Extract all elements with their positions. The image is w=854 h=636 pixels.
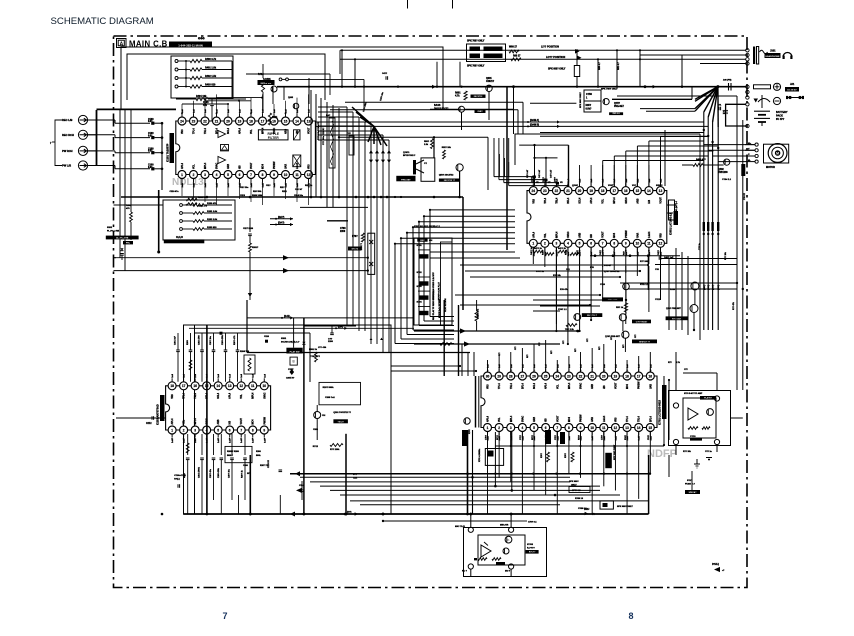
- caps-above-IC601 nested box: [519, 144, 568, 146]
- svg-text:23: 23: [543, 189, 547, 193]
- svg-text:3: 3: [556, 242, 558, 246]
- svg-text:A60 (PR): A60 (PR): [723, 79, 732, 82]
- svg-text:6: 6: [545, 426, 547, 430]
- capacitor C709 stub: [331, 326, 333, 333]
- svg-text:M-: M-: [748, 160, 751, 162]
- svg-text:C??0: C??0: [690, 436, 696, 438]
- wire IC601 to motor bus: [648, 141, 650, 187]
- wire IC101 pin riser: [273, 104, 275, 114]
- wire IC601 to motor bus: [660, 137, 662, 187]
- B pack transistor K1: [505, 536, 512, 543]
- wire IC701 area risers thick: [467, 430, 469, 514]
- wire fan diagonal: [695, 87, 718, 109]
- svg-text:16: 16: [649, 374, 653, 378]
- thick feeder x507: [506, 87, 508, 250]
- svg-text:APL4: APL4: [545, 382, 548, 389]
- wire base cluster: [430, 108, 459, 110]
- svg-text:R20? 4.7k: R20? 4.7k: [233, 335, 236, 345]
- svg-text:VR3: VR3: [615, 417, 617, 422]
- wire conduit lower corner: [430, 316, 454, 318]
- svg-text:Q50? 2SC2712: Q50? 2SC2712: [439, 175, 454, 177]
- wire IC701 pin rise: [580, 352, 582, 373]
- svg-text:10: 10: [636, 242, 640, 246]
- svg-text:Q?0?1: Q?0?1: [403, 152, 410, 154]
- wire corner run: [413, 226, 515, 228]
- capacitor C408: [658, 256, 660, 260]
- battery cell symbol: [761, 95, 763, 108]
- svg-text:SCL4: SCL4: [533, 382, 536, 389]
- svg-text:A: A: [120, 41, 124, 47]
- svg-text:SVARC: SVARC: [656, 184, 663, 187]
- svg-text:30: 30: [486, 374, 490, 378]
- resistor R400 motor: [693, 164, 703, 167]
- B pack bottom terminals: [468, 527, 473, 532]
- preset block C656: [584, 90, 601, 101]
- inner line playback box left: [194, 325, 196, 514]
- svg-text:J101: J101: [770, 50, 776, 53]
- svg-text:JA1: JA1: [790, 83, 795, 86]
- section box around IC201 playback amp: [184, 325, 392, 514]
- svg-text:S?C?2: S?C?2: [351, 249, 358, 251]
- svg-text:C20? 47u: C20? 47u: [209, 468, 212, 478]
- wire IC101 pin riser: [262, 94, 264, 113]
- wire cap to IC101 bus: [154, 122, 162, 124]
- wire long drop: [567, 248, 569, 344]
- svg-text:VCL: VCL: [499, 417, 501, 422]
- svg-text:PRE-SET: PRE-SET: [401, 179, 411, 181]
- svg-text:R5? 1k: R5? 1k: [616, 307, 624, 309]
- wire switch feed: [363, 79, 365, 110]
- wire IC601 pin drop: [613, 248, 615, 270]
- svg-text:SP?? 10: SP?? 10: [572, 490, 581, 492]
- svg-text:C117 2200: C117 2200: [243, 228, 254, 230]
- svg-text:R?? 6167: R?? 6167: [672, 318, 682, 320]
- svg-text:R4?? 1k: R4?? 1k: [558, 247, 567, 250]
- svg-text:C11? 47: C11? 47: [295, 188, 302, 191]
- svg-text:R60 4.7: R60 4.7: [598, 62, 601, 70]
- svg-text:17: 17: [637, 374, 641, 378]
- capacitor group C201 3uF: [177, 333, 179, 350]
- capacitor C20? 10u: [213, 333, 215, 350]
- svg-text:MA? ?L/O: MA? ?L/O: [455, 525, 465, 528]
- C75 black label vertical: [741, 164, 745, 176]
- wire IC601 pin drop: [567, 248, 569, 273]
- svg-text:22: 22: [579, 374, 583, 378]
- resistor R403 ladder row: [175, 85, 178, 88]
- capacitor R20? 4.7k: [237, 333, 239, 350]
- resistor R704: [571, 452, 574, 462]
- wire IC701 pin rise: [614, 340, 616, 373]
- bias resistor row R150: [180, 204, 183, 207]
- IC101 internal attenuator box: [221, 145, 229, 151]
- resistor R800 47k vertical: [475, 311, 478, 321]
- junction dots upper bundle at bus197: [394, 196, 396, 198]
- svg-text:6: 6: [590, 242, 592, 246]
- wire cap to IC101 bus: [154, 137, 162, 139]
- component SC601 right of IC601: [669, 200, 675, 220]
- svg-text:FILTER: FILTER: [268, 136, 280, 140]
- wire bottom bus: [350, 500, 649, 502]
- svg-text:3: 3: [194, 428, 196, 432]
- svg-text:3: 3: [204, 173, 206, 177]
- wire stub arrows bottom: [296, 488, 302, 493]
- left border small stubs: [114, 204, 122, 206]
- motor M701 circles: [768, 144, 787, 163]
- wire mid horizontal: [470, 276, 620, 278]
- svg-text:15: 15: [284, 119, 288, 123]
- transistor Q401: [271, 86, 277, 92]
- resistor R401 ladder row: [175, 68, 178, 71]
- DC jack circle plus: [773, 83, 780, 90]
- wire IC701 pin rise: [510, 352, 512, 373]
- svg-text:2SC2712: 2SC2712: [265, 82, 275, 84]
- wire bottom bus: [360, 504, 560, 506]
- wire IC701 pin rise: [521, 348, 523, 373]
- svg-text:C42?: C42?: [657, 249, 660, 255]
- svg-text:3: 3: [510, 426, 512, 430]
- svg-text:R50?: R50?: [424, 141, 430, 143]
- svg-text:C204 4700k: C204 4700k: [198, 466, 201, 478]
- svg-text:C72?: C72?: [555, 434, 557, 440]
- connector group wiring to board: [96, 120, 98, 166]
- fan node on power bus: [716, 85, 719, 88]
- svg-text:R71?: R71?: [497, 434, 499, 440]
- svg-text:5: 5: [579, 242, 581, 246]
- right vertical pair to B pack: [736, 96, 738, 390]
- net pair on IC201 box bottom: [344, 513, 347, 516]
- wire IC701 pin rise: [591, 348, 593, 373]
- wire IC701 pin rise: [638, 356, 640, 373]
- svg-text:VOUT: VOUT: [603, 231, 605, 238]
- svg-text:2SC2?12 ?: 2SC2?12 ?: [587, 315, 598, 317]
- wire switch drop 1: [597, 59, 599, 86]
- section box around IC101 front-end: [121, 47, 443, 110]
- junction wire under IC601: [590, 255, 680, 257]
- wire drop: [602, 266, 604, 300]
- svg-text:Q401: Q401: [265, 78, 271, 81]
- switch S702: [423, 279, 425, 289]
- svg-text:R404 10k: R404 10k: [196, 95, 207, 98]
- resistor R203 zig: [189, 360, 192, 370]
- capacitor group C203 470k: [225, 333, 227, 350]
- svg-text:C?5 R?: C?5 R?: [744, 192, 746, 200]
- svg-text:20: 20: [578, 189, 582, 193]
- svg-text:15: 15: [636, 189, 640, 193]
- svg-text:R65 6.8: R65 6.8: [613, 113, 621, 115]
- svg-text:21: 21: [590, 374, 594, 378]
- svg-text:R?C??: R?C??: [529, 552, 536, 554]
- svg-text:SPK 600? ONLY: SPK 600? ONLY: [617, 506, 633, 508]
- svg-text:9: 9: [625, 242, 627, 246]
- svg-text:R72?: R72?: [532, 434, 534, 440]
- svg-text:Q?5?: Q?5?: [614, 103, 620, 105]
- wire vertical bus: [388, 140, 390, 352]
- wire long drop: [555, 248, 557, 331]
- wire drop: [555, 266, 557, 324]
- motor M701 body: [764, 144, 789, 163]
- wire IC101 pin drop: [308, 182, 310, 205]
- wire stub: [556, 432, 558, 446]
- svg-text:UAR: UAR: [591, 417, 594, 422]
- junction dots bus y514: [206, 513, 209, 516]
- black box under IC701 pin6: [545, 430, 551, 444]
- bottom thick bus: [183, 513, 648, 515]
- svg-text:4: 4: [216, 173, 218, 177]
- wire IC101 pin drop: [262, 182, 264, 205]
- svg-text:11: 11: [602, 426, 606, 430]
- vertical drop on switch line x640: [639, 50, 641, 86]
- wire stub: [626, 432, 628, 446]
- wire IC701 pin rise: [545, 340, 547, 373]
- svg-text:R111: R111: [282, 191, 288, 193]
- wire motor bus vertical: [707, 117, 709, 330]
- svg-text:11: 11: [647, 242, 651, 246]
- svg-text:C?? 100u C118 R?: C?? 100u C118 R?: [323, 127, 325, 145]
- svg-text:C40?: C40?: [542, 176, 545, 182]
- wire to bottom rail: [238, 495, 240, 514]
- wire vertical: [326, 102, 328, 207]
- svg-text:SC?01 (MT?)-?: SC?01 (MT?)-?: [676, 200, 678, 215]
- wire switch drop 2: [616, 50, 618, 86]
- svg-text:9: 9: [580, 426, 582, 430]
- switch column inner box: [441, 242, 453, 325]
- right B pack op amp: [688, 408, 698, 420]
- svg-text:PRE-SET: PRE-SET: [614, 106, 625, 108]
- svg-text:UAR: UAR: [285, 164, 288, 169]
- svg-text:MODE 5x14 SPEED 2.2k W?F: MODE 5x14 SPEED 2.2k W?F: [432, 272, 435, 300]
- wire vertical bus: [364, 122, 366, 331]
- wire IC101 pin riser: [296, 98, 298, 114]
- rec switch black box: [417, 238, 427, 242]
- svg-text:18: 18: [170, 384, 174, 388]
- svg-text:10: 10: [284, 173, 288, 177]
- svg-text:ARB: ARB: [636, 198, 639, 203]
- svg-text:11: 11: [295, 173, 299, 177]
- svg-text:13: 13: [625, 426, 629, 430]
- svg-text:R?9 47k: R?9 47k: [560, 288, 569, 291]
- wire conduit vertical: [429, 210, 431, 317]
- wire bottom bus: [340, 494, 620, 496]
- svg-text:2200: 2200: [328, 341, 334, 343]
- junctions on bottom buses: [466, 472, 469, 475]
- svg-text:Q201 ?SC2712 ??: Q201 ?SC2712 ??: [333, 412, 351, 414]
- svg-text:R162: R162: [126, 205, 132, 207]
- resistor R502 1.5k: [431, 139, 434, 149]
- svg-text:10: 10: [262, 384, 266, 388]
- resistor R606 27: [511, 58, 521, 61]
- svg-text:1u3F: 1u3F: [241, 437, 243, 443]
- headphone icon: [783, 53, 792, 58]
- svg-text:(?): (?): [592, 514, 595, 516]
- B pack sub box bottom: [464, 528, 547, 577]
- extra verticals inside IC201 box: [309, 352, 311, 382]
- svg-text:SPK 600? ONLY: SPK 600? ONLY: [548, 69, 566, 71]
- wire bottom bus: [310, 481, 570, 483]
- svg-text:ARB: ARB: [217, 419, 220, 424]
- resistor array RA101 right of IC101: [329, 118, 335, 168]
- bus segment y207: [300, 206, 368, 208]
- svg-text:TRL4: TRL4: [510, 383, 513, 389]
- transistor Q605: [622, 331, 629, 338]
- wire IC701 pin drop: [614, 432, 616, 491]
- svg-text:C74?: C74?: [647, 434, 650, 440]
- svg-text:C20? 10u: C20? 10u: [210, 335, 212, 345]
- svg-text:DC IN 6V: DC IN 6V: [787, 90, 797, 92]
- svg-text:VOUT: VOUT: [241, 418, 243, 425]
- svg-text:R601: R601: [455, 93, 461, 95]
- svg-text:C?0? R6167: C?0? R6167: [636, 321, 648, 323]
- svg-text:24: 24: [180, 119, 184, 123]
- wire stub right edge of IC701 rail: [650, 445, 664, 447]
- svg-text:C73?: C73?: [602, 434, 604, 440]
- svg-text:7: 7: [556, 426, 558, 430]
- wire from IC101 pin17 up to switch cluster: [272, 87, 274, 104]
- wire IC601 pin drop: [648, 248, 650, 264]
- wire IC601 pin drop: [659, 248, 661, 267]
- motor connector pins: [755, 143, 758, 146]
- svg-text:DRU: DRU: [584, 508, 589, 511]
- wire harness fan centre: [352, 107, 374, 127]
- power polarity curve: [758, 99, 770, 103]
- wire stair feeder: [318, 106, 347, 108]
- svg-text:R-????: R-????: [527, 548, 535, 550]
- svg-text:O,O,O: O,O,O: [176, 236, 183, 239]
- svg-text:S201: S201: [281, 338, 287, 340]
- wire motor bus vertical: [717, 127, 719, 330]
- wire long drop: [590, 248, 592, 320]
- svg-text:VR3: VR3: [182, 129, 184, 134]
- svg-text:SPK 600?: SPK 600?: [569, 481, 579, 483]
- svg-text:SVAC: SVAC: [567, 231, 570, 238]
- svg-text:VCL: VCL: [194, 164, 196, 169]
- wire b pack feed across: [383, 520, 511, 522]
- svg-text:20: 20: [226, 119, 230, 123]
- mute switch box: [600, 501, 613, 509]
- svg-text:2: 2: [183, 428, 185, 432]
- svg-text:560k?: 560k?: [227, 455, 234, 457]
- component C150 tall: [349, 136, 354, 155]
- junction dots mid: [647, 264, 649, 266]
- component box below IC201: [225, 446, 252, 462]
- dots at IC601 bottom stub tips: [532, 250, 534, 252]
- resistor R404 10k horizontal: [196, 97, 208, 100]
- thick feeders beside IC701: [475, 376, 477, 428]
- svg-text:©®©: ©®©: [198, 37, 205, 41]
- svg-text:TRL4: TRL4: [638, 416, 641, 422]
- svg-text:APL4: APL4: [181, 162, 184, 169]
- resistor R411 vertical: [268, 113, 271, 125]
- wire IC601 pin drop: [625, 248, 627, 273]
- capacitor group below R205: [187, 434, 189, 455]
- wire fan diagonal: [695, 87, 718, 102]
- svg-text:8: 8: [568, 426, 570, 430]
- wire vertical feeder: [461, 344, 463, 376]
- wire drop: [625, 266, 627, 324]
- svg-text:27: 27: [521, 374, 525, 378]
- wire IC101 pin drop: [250, 182, 252, 202]
- svg-text:(DAM A): (DAM A): [530, 119, 539, 122]
- svg-text:R20? 560k: R20? 560k: [323, 387, 335, 389]
- transistor Q201: [314, 412, 321, 419]
- wire motor bus vertical: [703, 112, 705, 330]
- svg-text:VOUT: VOUT: [557, 415, 559, 422]
- wire IC701 pin rise: [556, 360, 558, 373]
- svg-text:TPL4: TPL4: [498, 383, 501, 389]
- resistor R205 zig below: [186, 443, 189, 453]
- wire vertical: [332, 105, 334, 207]
- svg-text:R?? 10k: R?? 10k: [683, 451, 692, 453]
- wire stair into IC601: [508, 162, 510, 177]
- svg-text:R70?: R70?: [352, 236, 358, 238]
- ground symbol below right B pack: [696, 459, 698, 464]
- mid sheet long buses: [247, 317, 414, 319]
- connector CN2 REC RCH: [78, 130, 87, 139]
- svg-text:4: 4: [567, 242, 569, 246]
- wire bus branch: [304, 325, 356, 327]
- svg-text:SPK 700? ONLY: SPK 700? ONLY: [467, 66, 485, 68]
- wire IC701 pin drop: [521, 432, 523, 514]
- svg-text:PWSW: PWSW: [581, 414, 583, 422]
- polarity contacts: [788, 96, 791, 99]
- svg-text:PW L/B: PW L/B: [62, 164, 71, 168]
- svg-text:SVAC: SVAC: [263, 392, 266, 399]
- svg-text:W60 27: W60 27: [509, 47, 518, 49]
- wire IC701 pin rise: [603, 344, 605, 373]
- svg-text:12: 12: [239, 384, 243, 388]
- svg-text:21: 21: [566, 189, 570, 193]
- wire vertical feeder: [473, 352, 475, 376]
- svg-text:13: 13: [307, 119, 311, 123]
- SPK only black box bottom: [605, 453, 612, 468]
- svg-text:REC RCH: REC RCH: [62, 133, 74, 137]
- svg-text:MPL4: MPL4: [262, 127, 265, 134]
- wire fan diagonal: [713, 87, 718, 122]
- svg-text:R11? 1k: R11? 1k: [305, 185, 313, 187]
- svg-text:Q70? PRE-SET: Q70? PRE-SET: [666, 308, 682, 310]
- wire vertical bus: [376, 131, 378, 344]
- wire conduit vertical: [418, 222, 420, 326]
- svg-text:7: 7: [222, 611, 227, 621]
- svg-text:VR3: VR3: [309, 164, 311, 169]
- wire vertical: [338, 108, 340, 197]
- wire IC701 pin drop: [545, 432, 547, 495]
- IC101 internal ripple filter box: [258, 130, 288, 140]
- svg-text:SCL4: SCL4: [217, 392, 220, 399]
- wire IC701 pin rise: [568, 356, 570, 373]
- series capacitor on bus C601: [728, 83, 730, 91]
- wire fan stub left pair: [640, 108, 695, 110]
- wire conduit lower corner: [419, 325, 454, 327]
- top registration tick left: [407, 0, 409, 9]
- wire stair feeder: [318, 125, 371, 127]
- svg-text:ARB: ARB: [227, 164, 230, 169]
- svg-text:1u3F: 1u3F: [264, 437, 266, 443]
- battery loop wire: [726, 104, 746, 126]
- wire to bottom rail: [279, 495, 281, 514]
- svg-text:MOTOR: MOTOR: [766, 166, 775, 169]
- wire IC101 pin riser: [227, 104, 229, 114]
- svg-text:MPL4: MPL4: [194, 418, 197, 425]
- wire bottom bus: [330, 489, 600, 491]
- wire IC101 pin drop: [216, 182, 218, 205]
- wire vertical: [320, 98, 322, 197]
- wire long drop: [579, 248, 581, 331]
- svg-text:B: B: [293, 360, 295, 364]
- svg-text:MPL4: MPL4: [252, 392, 255, 399]
- svg-text:C708: C708: [340, 228, 346, 230]
- wire IC701 pin rise: [533, 344, 535, 373]
- wire IC701 pin drop: [487, 432, 489, 514]
